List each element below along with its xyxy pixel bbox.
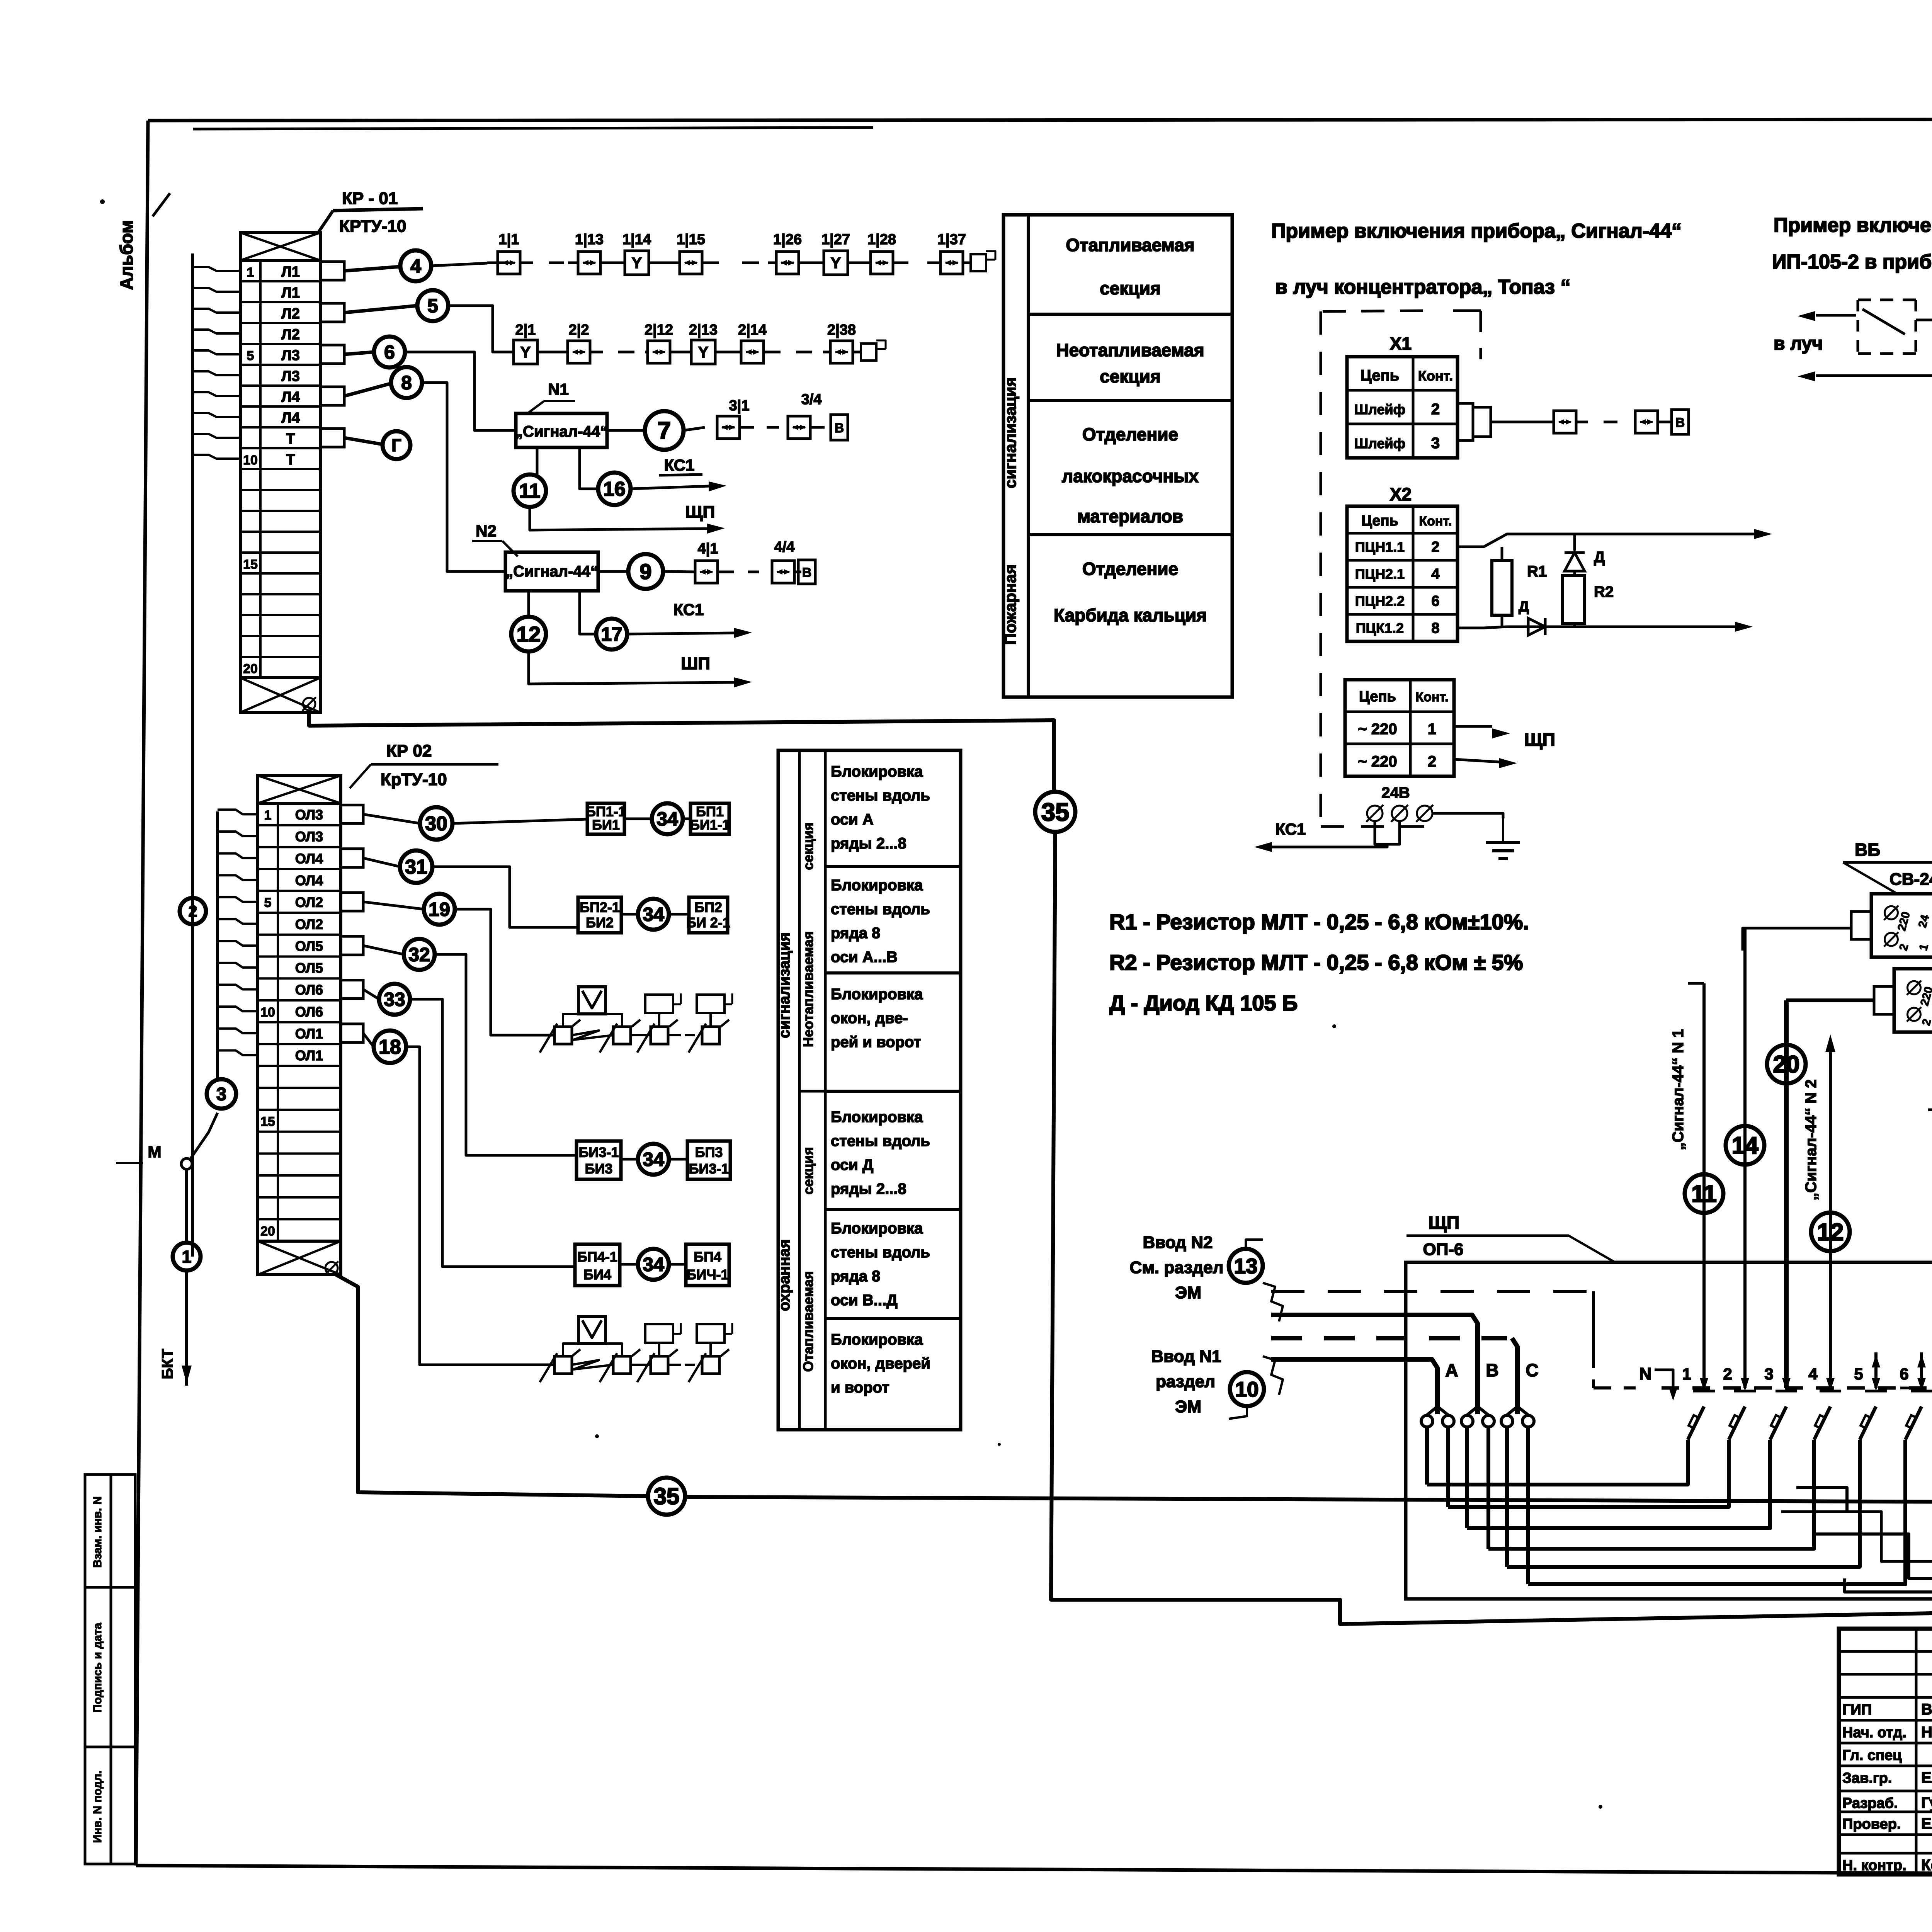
wire circuit 16 from N1 — [580, 447, 598, 489]
svg-text:16: 16 — [603, 478, 626, 500]
svg-text:оси А...В: оси А...В — [831, 949, 898, 966]
wire VB left to riser 14 — [1743, 928, 1851, 951]
svg-text:оси Д: оси Д — [831, 1156, 873, 1173]
node circle 34c — [621, 1158, 638, 1161]
svg-text:ЩП: ЩП — [1429, 1213, 1459, 1233]
svg-text:10: 10 — [1235, 1377, 1259, 1401]
security group contact B — [613, 1027, 631, 1044]
svg-text:1: 1 — [264, 808, 272, 823]
svg-text:17: 17 — [601, 624, 622, 645]
svg-text:ПЦН1.1: ПЦН1.1 — [1355, 539, 1405, 555]
svg-text:Y: Y — [698, 344, 709, 361]
svg-text:В: В — [1486, 1360, 1498, 1380]
svg-text:15: 15 — [243, 557, 258, 572]
svg-text:Л1: Л1 — [281, 285, 300, 301]
svg-text:В: В — [1675, 415, 1685, 430]
svg-text:30: 30 — [425, 813, 447, 835]
svg-text:стены вдоль: стены вдоль — [831, 901, 930, 918]
svg-text:охранная: охранная — [776, 1239, 793, 1311]
wire PTsK1.2 output arrow — [1458, 627, 1735, 628]
detector 2|2 — [568, 341, 590, 363]
detector 1|13 — [578, 252, 600, 274]
switch 5 — [1874, 1352, 1878, 1388]
svg-text:3: 3 — [1764, 1365, 1773, 1383]
svg-text:стены вдоль: стены вдоль — [831, 1244, 930, 1261]
svg-text:R1 - Резистор МЛТ - 0,25 - 6: R1 - Резистор МЛТ - 0,25 - 6,8 кОм±10%. — [1109, 910, 1529, 934]
svg-text:раздел: раздел — [1156, 1372, 1215, 1391]
unit BP2-1/BI2 — [578, 897, 621, 933]
svg-text:Неотапливаемая: Неотапливаемая — [800, 931, 816, 1047]
KP-02 left stub wires — [216, 811, 219, 1079]
example end box V — [1672, 410, 1689, 434]
svg-text:2|13: 2|13 — [689, 322, 718, 338]
wire circuit 12 from N2 — [527, 591, 530, 617]
svg-text:2: 2 — [1431, 539, 1439, 555]
svg-text:КС1: КС1 — [664, 456, 695, 474]
dashed N bus across switches — [1662, 1386, 1932, 1390]
switch 2 blade — [1729, 1406, 1745, 1440]
detector 1|28 — [871, 252, 893, 274]
svg-text:БИ1-1: БИ1-1 — [690, 817, 730, 833]
svg-text:1: 1 — [1428, 721, 1436, 738]
example detector a — [1554, 411, 1576, 433]
chain 3 end box V — [831, 415, 848, 440]
svg-text:Нижник: Нижник — [1921, 1724, 1932, 1741]
svg-text:КРТУ-10: КРТУ-10 — [339, 217, 406, 236]
unit BP4-1/BI4 — [575, 1244, 620, 1286]
svg-text:1|28: 1|28 — [867, 231, 896, 248]
wire circuit 8 to Signal-44 N2 — [422, 383, 505, 571]
example detector b — [1635, 411, 1658, 433]
unit BP4/BI4-1 — [669, 1263, 686, 1266]
svg-text:32: 32 — [408, 944, 430, 966]
wire 220V-1 to ShchP arrow — [1454, 725, 1492, 728]
switch 6 — [1920, 1352, 1923, 1388]
device Signal-44 N1 — [516, 413, 607, 447]
unit BP1/BI1-1 — [683, 818, 690, 820]
detector 2|14 — [741, 341, 764, 363]
wire 220V-2 arrow — [1454, 759, 1499, 762]
svg-text:БИ2: БИ2 — [586, 915, 614, 930]
security group contact B — [613, 1356, 631, 1374]
node circle 5 — [344, 306, 417, 313]
node circle 33 — [363, 990, 379, 999]
detector 3|1 — [717, 416, 740, 439]
svg-text:окон, две-: окон, две- — [831, 1010, 908, 1027]
node circle 34b — [621, 913, 638, 916]
svg-text:„Сигнал-44“ N 2: „Сигнал-44“ N 2 — [1803, 1079, 1820, 1200]
security group contact A — [554, 1027, 572, 1044]
wire bus left of KP-01 — [191, 253, 194, 1257]
svg-text:Пожарная: Пожарная — [1001, 565, 1019, 645]
ground symbol — [1502, 818, 1504, 842]
detector 2|13 — [691, 340, 715, 364]
wire circuit 5 to chain 2 — [448, 306, 502, 352]
svg-text:Нач. отд.: Нач. отд. — [1842, 1725, 1906, 1741]
svg-text:КрТУ-10: КрТУ-10 — [381, 770, 447, 789]
security group wire dash — [669, 1364, 681, 1366]
svg-text:Y: Y — [520, 344, 531, 361]
svg-text:X1: X1 — [1390, 333, 1412, 354]
svg-text:материалов: материалов — [1077, 506, 1183, 526]
svg-text:секция: секция — [1100, 366, 1161, 386]
feed dashed vertical to N — [1592, 1291, 1595, 1352]
svg-text:10: 10 — [243, 453, 258, 468]
svg-text:Д: Д — [1519, 599, 1529, 615]
svg-text:ряда 8: ряда 8 — [831, 1268, 880, 1285]
svg-text:БКТ: БКТ — [159, 1349, 176, 1379]
svg-text:ОЛ4: ОЛ4 — [295, 872, 323, 888]
switch 1 blade — [1688, 1406, 1704, 1440]
frame top edge double line — [193, 128, 873, 129]
svg-text:В: В — [802, 565, 812, 580]
svg-text:20: 20 — [1773, 1051, 1800, 1078]
wire circuit 4 to chain 1 — [431, 263, 487, 266]
security group flag contact C — [651, 1027, 668, 1044]
svg-text:2: 2 — [1431, 401, 1440, 418]
detector 1|15 — [680, 252, 702, 274]
svg-text:33: 33 — [384, 989, 405, 1010]
svg-text:34: 34 — [643, 904, 664, 925]
svg-text:Конт.: Конт. — [1418, 368, 1453, 384]
terminal block KP-02 bottom cross box — [258, 1241, 341, 1275]
svg-text:ЩП: ЩП — [1524, 730, 1555, 750]
svg-text:N2: N2 — [476, 522, 497, 540]
riser wire 14 — [1743, 928, 1747, 1388]
phase contactor C — [1501, 1415, 1513, 1427]
wire chain 4 — [663, 571, 695, 572]
svg-text:6: 6 — [384, 342, 395, 363]
svg-text:19: 19 — [429, 899, 450, 920]
svg-text:КР 02: КР 02 — [386, 742, 432, 760]
svg-text:оси В...Д: оси В...Д — [831, 1292, 898, 1309]
svg-text:1|26: 1|26 — [773, 231, 802, 248]
svg-text:Подпись и дата: Подпись и дата — [91, 1622, 104, 1713]
svg-text:Блокировка: Блокировка — [831, 1331, 923, 1348]
device Signal-44 N2 — [505, 552, 598, 591]
detector 2|12 — [648, 341, 670, 363]
diode D top — [1573, 534, 1576, 551]
svg-text:ОЛ5: ОЛ5 — [295, 938, 323, 954]
detector 2|1 — [514, 340, 537, 364]
svg-text:1|14: 1|14 — [622, 231, 651, 248]
svg-text:БИЧ-1: БИЧ-1 — [686, 1267, 728, 1282]
svg-text:СВ-24-9: СВ-24-9 — [1889, 870, 1932, 889]
svg-text:Л2: Л2 — [281, 306, 300, 322]
svg-text:12: 12 — [1817, 1219, 1844, 1246]
terminal block KP-02 top cross box — [258, 776, 341, 803]
node circle 4 — [344, 267, 400, 271]
chain 2 end flag — [861, 344, 876, 361]
svg-text:стены вдоль: стены вдоль — [831, 787, 930, 804]
svg-text:5: 5 — [1854, 1365, 1863, 1383]
svg-text:ГИП: ГИП — [1842, 1702, 1872, 1718]
svg-text:БП2-1: БП2-1 — [580, 900, 620, 915]
svg-text:сигнализация: сигнализация — [776, 932, 793, 1038]
svg-text:Неотапливаемая: Неотапливаемая — [1056, 340, 1204, 360]
svg-text:3: 3 — [216, 1083, 226, 1104]
svg-text:Цепь: Цепь — [1359, 689, 1396, 705]
node circle 34d — [620, 1263, 638, 1266]
svg-text:в луч концентратора„ Топаз: в луч концентратора„ Топаз “ — [1275, 276, 1570, 298]
svg-text:М: М — [148, 1143, 162, 1161]
ground wire — [1432, 813, 1503, 818]
wire KS1 from 24V — [1375, 821, 1400, 844]
terminal block KP-01 top cross box — [240, 233, 320, 260]
svg-text:оси А: оси А — [831, 811, 874, 828]
title block left grid — [1915, 1629, 1918, 1874]
svg-text:ПЦН2.1: ПЦН2.1 — [1355, 566, 1405, 582]
svg-text:1|13: 1|13 — [575, 231, 604, 248]
signal ShP output arrow — [529, 651, 734, 684]
connector 220V table — [1345, 680, 1454, 776]
svg-text:секция: секция — [1100, 278, 1161, 298]
node circle 7 — [607, 429, 645, 432]
svg-text:2|14: 2|14 — [738, 322, 767, 338]
left margin stamp strip — [85, 1475, 111, 1864]
svg-text:N: N — [1639, 1364, 1651, 1383]
svg-text:БИ 2-1: БИ 2-1 — [686, 915, 730, 930]
detector 2|38 — [830, 341, 853, 363]
svg-text:БИ1: БИ1 — [592, 817, 620, 833]
resistor R2 — [1563, 576, 1585, 623]
node circle 32 — [363, 946, 404, 954]
KP-01 left stub wires — [192, 267, 240, 271]
node circle 12b — [1811, 1213, 1850, 1251]
svg-text:4: 4 — [1808, 1365, 1818, 1383]
terminal block KP-02 right connector stubs — [341, 805, 363, 823]
svg-text:1|27: 1|27 — [821, 231, 850, 248]
node circle 34a — [624, 818, 652, 820]
security group Z-link — [572, 1360, 613, 1369]
wire to detector arrow left — [1816, 314, 1858, 317]
riser wire 11 Signal-44 N1 — [1702, 983, 1706, 1388]
detector chain 1 wire — [487, 262, 1043, 263]
security group link wire — [631, 1034, 651, 1036]
svg-text:Цепь: Цепь — [1361, 367, 1400, 384]
svg-text:ПЦН2.2: ПЦН2.2 — [1355, 593, 1405, 609]
svg-text:Гулько: Гулько — [1921, 1794, 1932, 1811]
svg-text:12: 12 — [517, 622, 541, 646]
svg-text:13: 13 — [1234, 1254, 1257, 1278]
detector 1|26 — [776, 252, 799, 274]
drawing frame border — [148, 119, 1932, 121]
wire circuit 11 from N1 — [536, 447, 539, 474]
security group V-box — [578, 1316, 605, 1344]
terminal block KP-01 right connector stubs — [320, 262, 344, 280]
svg-text:3/4: 3/4 — [801, 391, 822, 408]
svg-text:Отапливаемая: Отапливаемая — [1066, 235, 1194, 255]
input bracket 13 — [1263, 1283, 1283, 1321]
svg-text:Л3: Л3 — [281, 347, 300, 364]
svg-text:2|38: 2|38 — [827, 322, 856, 338]
svg-text:Еловых: Еловых — [1921, 1815, 1932, 1832]
svg-text:Y: Y — [831, 255, 841, 272]
wire circuit 31 to BP2 — [432, 867, 578, 927]
svg-text:ЭМ: ЭМ — [1175, 1397, 1201, 1416]
svg-text:6: 6 — [1431, 593, 1439, 609]
wire between detectors — [1916, 319, 1932, 321]
switch 1 output wire — [1427, 1440, 1688, 1485]
node circle 11b — [1685, 1174, 1723, 1213]
wire contactor terminal drops — [1425, 1427, 1429, 1485]
svg-text:ОЛ2: ОЛ2 — [295, 916, 323, 932]
svg-text:ЭМ: ЭМ — [1175, 1283, 1201, 1302]
svg-text:2: 2 — [1428, 753, 1436, 770]
signal KS1 output arrow 2 — [627, 633, 734, 634]
svg-text:В: В — [835, 421, 844, 435]
svg-text:БИ4: БИ4 — [583, 1267, 611, 1282]
svg-text:ОЛ6: ОЛ6 — [295, 1004, 323, 1020]
unit BP3/BI3-1 — [669, 1158, 687, 1161]
svg-text:А: А — [1445, 1360, 1458, 1380]
switch 4 output wire — [1488, 1440, 1814, 1549]
svg-text:Блокировка: Блокировка — [831, 1220, 923, 1237]
svg-text:ряды 2...8: ряды 2...8 — [831, 1180, 906, 1197]
svg-text:Y: Y — [632, 255, 642, 272]
node circle 12 — [511, 617, 546, 651]
unit BP2/BI2-1 — [669, 913, 689, 916]
svg-text:ОП-6: ОП-6 — [1423, 1240, 1464, 1259]
BKT outgoing arrow — [185, 1270, 188, 1386]
svg-text:ОЛ6: ОЛ6 — [295, 982, 323, 998]
svg-text:20: 20 — [260, 1224, 275, 1238]
svg-text:ряда 8: ряда 8 — [831, 925, 880, 942]
svg-text:Пример включения прибора„ С: Пример включения прибора„ Сигнал-44“ — [1271, 220, 1682, 242]
connector X2 table — [1347, 506, 1458, 641]
riser wire 20 — [1784, 1000, 1789, 1388]
svg-text:Провер.: Провер. — [1842, 1816, 1901, 1832]
svg-text:~ 220: ~ 220 — [1358, 753, 1397, 770]
wire stair step 1 — [1781, 1512, 1932, 1607]
svg-text:Отделение: Отделение — [1082, 559, 1178, 579]
svg-text:в луч: в луч — [1774, 333, 1823, 354]
detector IP-105-2 dashed box 1 — [1858, 300, 1916, 354]
connector X1 table — [1347, 357, 1458, 458]
svg-text:Карбида кальция: Карбида кальция — [1054, 605, 1207, 625]
node circle 13 — [1229, 1249, 1263, 1283]
svg-text:рей и ворот: рей и ворот — [831, 1034, 921, 1051]
detector 1|27 — [824, 251, 848, 275]
svg-text:„Сигнал-44“: „Сигнал-44“ — [505, 563, 598, 580]
detector 1|1 — [498, 252, 520, 274]
svg-text:Пример включения извещателя: Пример включения извещателя — [1774, 214, 1932, 236]
svg-text:2|12: 2|12 — [645, 322, 673, 338]
wire stair step 3 — [1845, 1578, 1932, 1592]
svg-text:10: 10 — [260, 1005, 275, 1020]
svg-text:ряды 2...8: ряды 2...8 — [831, 835, 906, 852]
chain 4 end box V — [798, 560, 815, 584]
node circle 2 — [180, 898, 206, 924]
svg-text:БП2: БП2 — [694, 900, 722, 915]
svg-text:ОЛ3: ОЛ3 — [295, 807, 323, 823]
svg-text:БП3: БП3 — [695, 1145, 723, 1160]
signal KS1 output arrow — [631, 486, 709, 489]
phase contactor A — [1421, 1415, 1433, 1427]
svg-text:4|1: 4|1 — [698, 541, 718, 557]
switch 5 blade — [1860, 1406, 1876, 1440]
svg-text:1|15: 1|15 — [677, 231, 705, 248]
svg-text:Н. контр.: Н. контр. — [1842, 1857, 1906, 1874]
svg-text:11: 11 — [519, 480, 541, 502]
wire chain 3 — [684, 427, 705, 430]
svg-text:ОЛ4: ОЛ4 — [295, 850, 323, 866]
svg-text:ЩП: ЩП — [685, 503, 715, 522]
svg-text:КС1: КС1 — [1276, 820, 1306, 838]
svg-text:КС1: КС1 — [673, 600, 704, 619]
chain 1 end flag — [971, 254, 986, 271]
phase contactor B — [1461, 1415, 1473, 1427]
detector chain 2 wire — [502, 351, 514, 354]
svg-text:БП4-1: БП4-1 — [577, 1249, 617, 1265]
feed line solid D — [1271, 1359, 1437, 1414]
input bracket 10 — [1263, 1356, 1283, 1395]
svg-text:сигнализация: сигнализация — [1001, 377, 1019, 488]
node M junction — [181, 1158, 192, 1169]
svg-text:Л1: Л1 — [281, 264, 300, 280]
svg-text:Ввод N1: Ввод N1 — [1151, 1347, 1221, 1366]
svg-text:окон, дверей: окон, дверей — [831, 1355, 930, 1372]
switch 3 blade — [1770, 1406, 1786, 1440]
svg-text:Т: Т — [286, 431, 295, 447]
svg-text:ШП: ШП — [681, 654, 710, 673]
security group flag contact C — [651, 1356, 668, 1374]
svg-text:Взам. инв. N: Взам. инв. N — [91, 1496, 104, 1568]
wire loop 35 left side — [1051, 832, 1932, 1624]
node circle 35 bottom — [648, 1478, 685, 1515]
svg-text:Блокировка: Блокировка — [831, 986, 923, 1003]
switch 3 output wire — [1467, 1440, 1770, 1528]
node circle 16 — [598, 473, 631, 505]
svg-text:6: 6 — [1900, 1365, 1908, 1383]
svg-text:Шлейф: Шлейф — [1354, 401, 1405, 417]
node circle 9 — [598, 570, 628, 573]
svg-text:20: 20 — [243, 662, 258, 676]
security group wire dash — [669, 1034, 681, 1036]
terminal block KP-01 rows — [240, 260, 320, 678]
node circle 35 top — [1035, 792, 1075, 832]
svg-text:Котенко: Котенко — [1921, 1857, 1932, 1874]
svg-text:Т: Т — [286, 452, 295, 468]
svg-text:2|1: 2|1 — [515, 322, 536, 338]
node circle 8 — [344, 383, 391, 396]
wire circuit 18 to security group 2 — [406, 1047, 553, 1365]
wire KP-01 phi to loop 35 — [309, 713, 1054, 792]
svg-text:Конт.: Конт. — [1419, 514, 1452, 529]
svg-text:Л3: Л3 — [281, 368, 300, 384]
svg-text:24В: 24В — [1381, 784, 1410, 801]
svg-text:секция: секция — [800, 822, 816, 870]
svg-text:БИ3: БИ3 — [585, 1161, 613, 1177]
riser wire 12 Signal-44 N2 — [1829, 1051, 1832, 1388]
svg-text:2: 2 — [1723, 1365, 1732, 1383]
signal ShchP output arrow — [530, 507, 707, 530]
svg-text:Конт.: Конт. — [1415, 690, 1448, 704]
node circle G — [344, 438, 383, 444]
svg-text:ОЛ3: ОЛ3 — [295, 829, 323, 845]
terminal block KP-02 rows — [258, 803, 341, 1241]
switch 5 output wire — [1507, 1440, 1860, 1567]
node circle 31 — [363, 858, 400, 867]
svg-text:4: 4 — [410, 255, 421, 277]
svg-text:Альбом: Альбом — [116, 220, 136, 290]
svg-text:1: 1 — [247, 265, 254, 280]
svg-text:Еловых: Еловых — [1921, 1769, 1932, 1786]
switch 2 output wire — [1448, 1440, 1729, 1507]
svg-text:15: 15 — [260, 1114, 275, 1129]
svg-text:Д - Диод КД 105 Б: Д - Диод КД 105 Б — [1109, 991, 1298, 1015]
svg-text:ВБ: ВБ — [1855, 840, 1880, 860]
